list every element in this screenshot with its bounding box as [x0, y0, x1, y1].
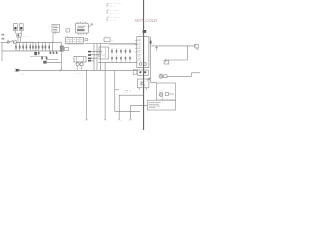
connector block CN3 pin labels	[138, 39, 141, 59]
resistor R9	[129, 56, 131, 62]
terminal TB1	[195, 44, 199, 48]
note box N1 text	[53, 26, 58, 31]
relay RY2 internals	[99, 47, 106, 59]
capacitor C10	[155, 46, 158, 51]
svg-text:--- --: --- --	[110, 12, 115, 15]
resistor R7	[120, 56, 122, 62]
diode D3	[111, 49, 113, 55]
wire right bus	[151, 37, 157, 83]
diode D2	[44, 42, 46, 51]
lamp LP1 X	[160, 75, 163, 78]
relay RY1 top pins	[78, 22, 86, 23]
IC U1 internal dividers	[69, 38, 80, 44]
switch SW1	[10, 40, 14, 43]
svg-text:-- ---: -- ---	[159, 90, 164, 93]
resistor R4	[85, 38, 88, 40]
connector CN2 box	[104, 38, 110, 42]
wire drop F L-shape	[119, 95, 143, 119]
connector block CN3 body	[137, 37, 149, 68]
bridge rectifier DB1 left leg	[41, 56, 43, 60]
capacitor C12 second row	[53, 51, 55, 54]
relay RY1 contact row	[77, 29, 85, 31]
legend group 3 text	[110, 16, 121, 22]
thermostat TH1 box	[164, 60, 169, 64]
note box N1 lead	[54, 32, 56, 34]
wire right bus vertical	[60, 42, 62, 70]
legend group 3 symbol	[107, 17, 110, 22]
connector CN1 pin 4 pad	[88, 60, 91, 62]
capacitor C11 second row	[50, 51, 52, 54]
resistor R2	[35, 42, 37, 51]
transformer T1 primary core dot	[14, 27, 16, 30]
svg-text:- --: - --	[21, 73, 24, 76]
wire main horizontal net	[21, 69, 138, 71]
relay RY3 box	[137, 70, 148, 75]
resistor R8	[125, 56, 127, 62]
motor M1 circle	[159, 93, 163, 97]
capacitor C7 electrolytic	[60, 46, 63, 51]
wire drop A	[93, 44, 95, 71]
svg-text:-- ---: -- ---	[124, 92, 129, 95]
net HOT-COLD long vertical wire	[143, 0, 145, 130]
connector CN1 pin 3 pad	[88, 58, 91, 60]
capacitor C4	[32, 42, 34, 51]
wire bridge output	[44, 60, 61, 63]
fuse label dark mark	[143, 30, 147, 33]
connector CN1 pin 1 pad	[88, 51, 91, 53]
diode D6	[125, 49, 127, 55]
motor M1 wire	[169, 93, 175, 95]
connector CN1 wires	[91, 51, 102, 60]
wire IC to connector rail	[85, 43, 137, 45]
diode D1	[38, 42, 40, 51]
capacitor C5	[66, 29, 70, 32]
resistor R6	[116, 56, 118, 62]
motor M1 X	[160, 93, 163, 96]
relay RY1 text	[78, 26, 86, 28]
wire drop G L-shape	[131, 106, 148, 119]
varistor cluster dark mark 1	[34, 52, 37, 55]
svg-text:-- -- -- -- --: -- -- -- -- --	[111, 48, 119, 50]
wire secondary rail	[109, 44, 137, 46]
wire L-line	[1, 41, 7, 43]
wire right output	[151, 45, 196, 47]
svg-text:-- --- -- --: -- --- -- --	[23, 36, 31, 38]
svg-text:-- -- -- -- --: -- -- -- -- --	[111, 55, 119, 57]
transformer T2 winding circle 2	[80, 63, 83, 66]
connector CN1 pin 2 pad	[88, 54, 91, 56]
connector block CN3 pin stubs	[135, 41, 137, 53]
resistor R1	[22, 42, 24, 51]
component value labels above rail	[22, 36, 34, 46]
transformer T2 internal lines	[77, 57, 84, 63]
svg-text:--- ---- --: --- ---- --	[75, 67, 84, 70]
transformer T1 secondary winding box	[19, 24, 23, 31]
IC U1 internal text	[67, 39, 83, 41]
svg-text:-- -- --- -- --- --: -- -- --- -- --- --	[22, 41, 34, 43]
transformer T2 winding circle 1	[76, 63, 79, 66]
wire note box drop	[52, 42, 54, 51]
relay coil K1 cluster under T1	[17, 34, 21, 37]
connector block CN3 pin rows	[137, 41, 141, 61]
transformer T2 body	[74, 57, 86, 63]
svg-text:-----: -----	[67, 36, 71, 38]
wire cluster bottom	[30, 55, 46, 57]
wire drop G end tick	[129, 119, 131, 121]
note box N1	[52, 24, 59, 32]
transformer T1 secondary core dot	[20, 27, 22, 30]
diode D4	[116, 49, 118, 55]
wire lower rail	[98, 61, 137, 63]
resistor R3	[48, 42, 50, 51]
transformer T1 lead wires	[15, 31, 21, 34]
wire drop F end tick	[118, 119, 120, 121]
wire drop E end tick	[104, 119, 106, 121]
thermostat TH1 tick	[164, 58, 166, 60]
legend group 2 symbol	[107, 10, 110, 14]
terminal TB1 arrow	[196, 48, 198, 50]
motor M1 series box	[165, 93, 168, 96]
relay RY3 input box	[133, 70, 137, 74]
cavity box	[156, 83, 175, 100]
wire drop D end tick	[85, 119, 87, 121]
relay RY3 dot 2	[144, 71, 146, 73]
legend group 1 symbol	[107, 3, 110, 7]
svg-text:---: ---	[88, 39, 90, 41]
relay RY3 dot 1	[139, 71, 141, 73]
connector block CN3 contact circle 2	[144, 63, 147, 66]
junction dots on main net	[61, 70, 101, 71]
relay coil K1 leads	[18, 37, 20, 42]
fuse F2 on right bus	[150, 41, 152, 44]
wire drop H stub	[115, 89, 119, 91]
wire drop E	[104, 62, 106, 118]
capacitor C8	[64, 48, 69, 51]
capacitor C3	[25, 42, 27, 51]
transformer T2 leads to net	[78, 66, 82, 70]
transformer T1 primary winding box	[14, 24, 18, 31]
AC input symbol row 1	[1, 34, 4, 36]
AC input symbol row 2	[1, 38, 4, 40]
svg-text:----: ----	[79, 34, 82, 36]
diode D7 bracket	[14, 69, 17, 72]
legend group 1 text	[110, 3, 121, 9]
resistor R5	[111, 56, 113, 62]
thermal cutout TCO1	[14, 41, 16, 44]
capacitor C9	[129, 49, 131, 55]
note box N3	[147, 100, 175, 110]
wire drop H vertical	[114, 70, 116, 111]
note box N3 top tick	[162, 96, 164, 100]
svg-text:HOT: HOT	[135, 18, 144, 23]
diode D5	[120, 49, 122, 55]
wire top rail	[16, 41, 61, 43]
diode D7 arrow	[19, 69, 21, 72]
transistor Q1 symbol	[141, 81, 144, 86]
note box N3 text	[149, 102, 161, 107]
wire drop C	[99, 44, 101, 71]
relay coil K1 dark mark	[18, 34, 20, 36]
capacitor C6	[42, 42, 44, 51]
svg-text:--- --: --- --	[110, 19, 115, 22]
svg-text:-- --- -: -- --- -	[77, 72, 83, 74]
wire drop D	[86, 70, 88, 119]
lamp LP1 circle	[159, 74, 163, 78]
junction dots on top rail	[19, 42, 53, 43]
svg-text:--: --	[152, 84, 154, 87]
bridge rectifier DB1 right leg	[46, 56, 48, 60]
IC U1 body	[66, 38, 84, 44]
note box N2 vertical wire	[52, 33, 54, 42]
varistor ZNR1	[29, 42, 31, 51]
relay RY2 box	[99, 47, 109, 59]
tick on main net	[59, 69, 61, 72]
relay RY1 box	[76, 23, 89, 33]
svg-text:COLD: COLD	[145, 18, 157, 23]
transistor Q1 box	[137, 79, 149, 88]
svg-text:----: ----	[111, 39, 114, 41]
arrow marker A2	[147, 78, 150, 81]
wire neutral vertical	[1, 42, 3, 61]
IC U1 pin ticks	[67, 43, 83, 44]
resistor R10 second row	[56, 51, 58, 54]
svg-text:--: --	[152, 42, 154, 44]
wire bottom horizontal net	[115, 110, 140, 112]
connector block CN3 contact circle 1	[139, 63, 142, 66]
wire lamp to edge	[167, 73, 200, 77]
svg-text:--- --: --- --	[110, 5, 115, 8]
diode D7 body	[16, 69, 18, 72]
wire lower rail left	[2, 50, 61, 52]
wire drop B	[96, 44, 98, 71]
capacitor C1	[15, 42, 17, 51]
transistor Q1 bottom pins	[140, 88, 147, 90]
relay RY1 pins	[78, 33, 86, 35]
varistor cluster dark mark 2	[38, 52, 40, 55]
capacitor C2	[19, 42, 21, 51]
lamp LP1 series box	[164, 75, 167, 78]
arrow marker A1	[89, 24, 92, 27]
legend group 2 text	[110, 9, 119, 15]
fuse F1	[7, 41, 9, 43]
wire loop right	[166, 46, 188, 62]
bridge rectifier DB1 body	[43, 61, 46, 64]
svg-text:---: ---	[7, 38, 9, 40]
